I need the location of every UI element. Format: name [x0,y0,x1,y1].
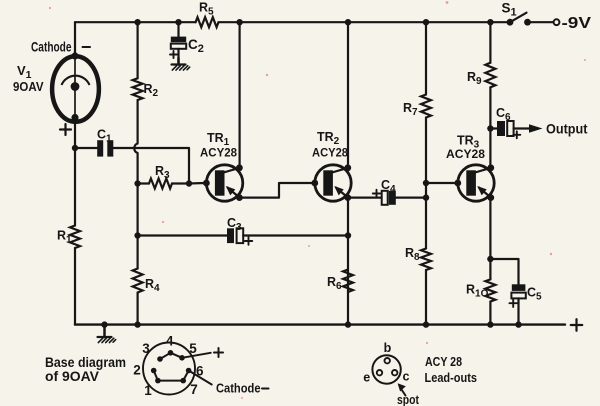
wire top rail down to C2 [177,22,179,37]
wire R8 to bottom rail [425,270,427,325]
wire C5 branch top [490,259,518,285]
resistor R10 [485,279,495,301]
wire hop to R3 node [137,153,139,184]
wire TR1 collector to top rail [239,22,241,168]
V1 cathode arc electrode [62,76,90,85]
svg-text:6: 6 [196,364,204,379]
ACY28 pin e [377,370,382,375]
svg-text:ACY28: ACY28 [312,146,348,160]
svg-text:Cathode: Cathode [216,381,261,396]
plus sign of C3 [245,237,253,245]
plus terminal of bottom rail [571,319,583,331]
wire C3 left [138,234,227,236]
svg-text:9OAV: 9OAV [13,79,44,94]
wire top rail down to V1 anode [74,22,76,55]
node top rail / TR2 collector [345,19,351,25]
svg-text:c: c [403,370,410,384]
minus sign at V1 top [83,46,91,48]
wire C6 node up to R9 [489,87,491,128]
wire pins 2-1-7-6 [154,371,189,381]
svg-text:b: b [384,341,392,355]
wire C3 node to R4 [137,236,139,269]
node C6 tap / TR3 collector [487,125,493,131]
svg-text:Lead-outs: Lead-outs [425,371,478,385]
node V1 bottom terminal [71,114,78,121]
node ground tap on bottom rail [101,321,107,327]
resistor R6 [343,270,353,293]
wire V1 branch to C1 [75,147,97,149]
transistor TR1 [203,164,243,201]
node C5 bottom on rail [515,321,521,327]
capacitor C3 negative plate [227,228,234,243]
wire C6 left lead [490,127,497,129]
node top rail / R7 branch [423,19,429,25]
transistor TR2 [311,164,351,201]
wire R7 to TR3 base node [425,118,427,184]
node C3 tap on divider branch [134,232,140,238]
90AV base outline circle [143,343,195,395]
switch S1 pole contact [507,19,514,26]
capacitor C5 positive plate [511,293,525,299]
capacitor C5 negative plate [512,284,526,291]
resistor R2 [133,78,143,100]
svg-text:of 9OAV: of 9OAV [45,368,100,384]
svg-text:5: 5 [189,341,197,356]
plus sign at V1 bottom [60,124,71,135]
V1 internal lead [74,56,76,118]
wire C2 to ground [177,49,179,65]
capacitor C3 positive plate [237,228,244,243]
node TR2 emitter / C3 wire junction [345,232,351,238]
wire top supply rail (left part, -9V rail) [75,21,196,23]
node R8 bottom on rail [423,321,429,327]
wire C3 right [243,234,348,236]
wire C6 to output arrow [514,127,530,129]
capacitor C4 positive plate [382,191,388,205]
node R3 / C1 / TR1 base junction [186,180,192,186]
wire C4 node to R8 [425,198,427,249]
transistor TR3 [454,164,494,201]
plus sign of C6 [513,131,520,138]
wire base node to C4 node [425,183,427,198]
wire R9 to top rail [489,22,491,63]
plus sign of base diagram [214,348,223,357]
base pin 3 dot [157,356,163,362]
capacitor C2 positive plate [171,44,186,49]
base pin 5 dot [179,355,185,361]
node C1 tap on V1 branch [72,145,78,151]
node R6 bottom on rail [345,321,351,327]
node R4 bottom on rail [134,321,140,327]
svg-text:e: e [363,371,370,385]
node top rail / R2 branch [134,19,140,25]
wire R3 node down to C3 node [137,184,139,236]
wire TR3 collector up to C6 node [489,129,491,169]
node R7 branch / TR3 base [423,180,429,186]
wire R2 to hop [137,100,139,144]
capacitor C2 negative plate [171,37,186,43]
wire bottom rail (+ rail) [75,323,565,325]
base pin 1 dot [155,378,161,384]
wire C4 to R8 branch [396,197,426,199]
wire TR2 emitter down to bottom rail [347,198,349,325]
wire R1 to bottom rail [74,248,76,325]
spot arrowhead [398,383,406,391]
base pin 7 dot [180,378,186,384]
plus sign of C2 [170,51,177,58]
resistor R4 [133,269,143,293]
svg-text:2: 2 [133,363,141,378]
node R10 bottom on rail [487,321,493,327]
svg-text:7: 7 [190,382,198,397]
base pin 6 dot [186,368,192,374]
node top rail / C2 branch [175,19,181,25]
resistor R1 [70,226,80,249]
wire C5 to bottom rail [517,298,519,324]
wire TR3 emitter down [489,198,491,280]
switch S1 blade [510,13,527,23]
node C5 tap / TR3 emitter [487,256,493,262]
node V1 top terminal [71,52,78,59]
wire top rail down to R2 [137,22,139,78]
resistor R8 [421,249,431,271]
wire TR1 emitter to TR2 base [240,183,313,198]
wire C1 to TR1 base corner [113,148,189,183]
spot arrow line [402,390,406,396]
node R7 branch / C4 junction [423,194,429,200]
svg-text:Output: Output [546,121,588,137]
wire R3 left lead [138,182,149,184]
resistor R9 [485,63,495,88]
switch S1 throw contact [524,19,531,26]
svg-text:ACY28: ACY28 [446,147,485,161]
wire to TR1 base [189,182,205,185]
battery terminal (open circle) [554,19,560,25]
capacitor C6 positive plate [507,121,513,136]
lead pin5 to plus [182,353,211,358]
wire switch to battery terminal [528,21,554,23]
wire top supply rail (right part) [219,21,511,23]
svg-text:Cathode: Cathode [31,39,72,55]
ACY28 pin b [385,358,390,363]
node top rail / R9 branch [487,19,493,25]
minus sign after Cathode [262,388,269,390]
svg-text:spot: spot [397,392,420,406]
wire R10 to bottom rail [489,302,491,325]
wire TR3 base lead [426,182,456,184]
svg-text:ACY28: ACY28 [200,146,237,160]
ACY28 case outline circle [372,355,400,383]
plus sign of C4 [373,190,381,198]
wire R3 to base node [172,182,189,184]
resistor R5 (in series with top rail) [196,17,219,27]
base pin 4 dot [168,350,174,356]
capacitor C1 right plate [107,140,113,156]
ACY28 pin c [392,370,397,375]
svg-text:3: 3 [142,341,150,356]
svg-text:ACY 28: ACY 28 [425,355,462,369]
base pin 2 dot [151,368,157,374]
wire top rail down to R7 [425,22,427,94]
V1 anode dot electrode [71,82,80,91]
wire TR2 emitter to C4 [348,197,382,199]
wire pins 3-4-5 [160,353,182,359]
capacitor C6 negative plate [497,121,505,136]
plus sign of C5 [509,299,517,307]
resistor R3 [149,179,172,189]
wire V1 bottom to R1 [74,118,76,226]
wire hop over C1 wire (no connection) [134,144,137,154]
svg-text:-9V: -9V [562,15,592,32]
ground symbol at C2 [172,58,190,70]
lead pin6 to cathode label [189,371,212,385]
output arrowhead [529,124,543,133]
capacitor C4 negative plate [389,191,396,205]
node top rail / TR1 collector [236,19,242,25]
phototube V1 envelope (oval) [52,56,99,122]
ground symbol at bottom rail [98,325,116,343]
capacitor C1 left plate [97,140,103,156]
wire R4 to bottom rail [137,293,139,325]
resistor R7 [421,95,431,118]
node R2/R3/R4 junction [134,180,140,186]
wire TR2 collector to top rail [347,22,349,168]
svg-text:1: 1 [144,383,152,398]
svg-text:4: 4 [166,334,174,349]
